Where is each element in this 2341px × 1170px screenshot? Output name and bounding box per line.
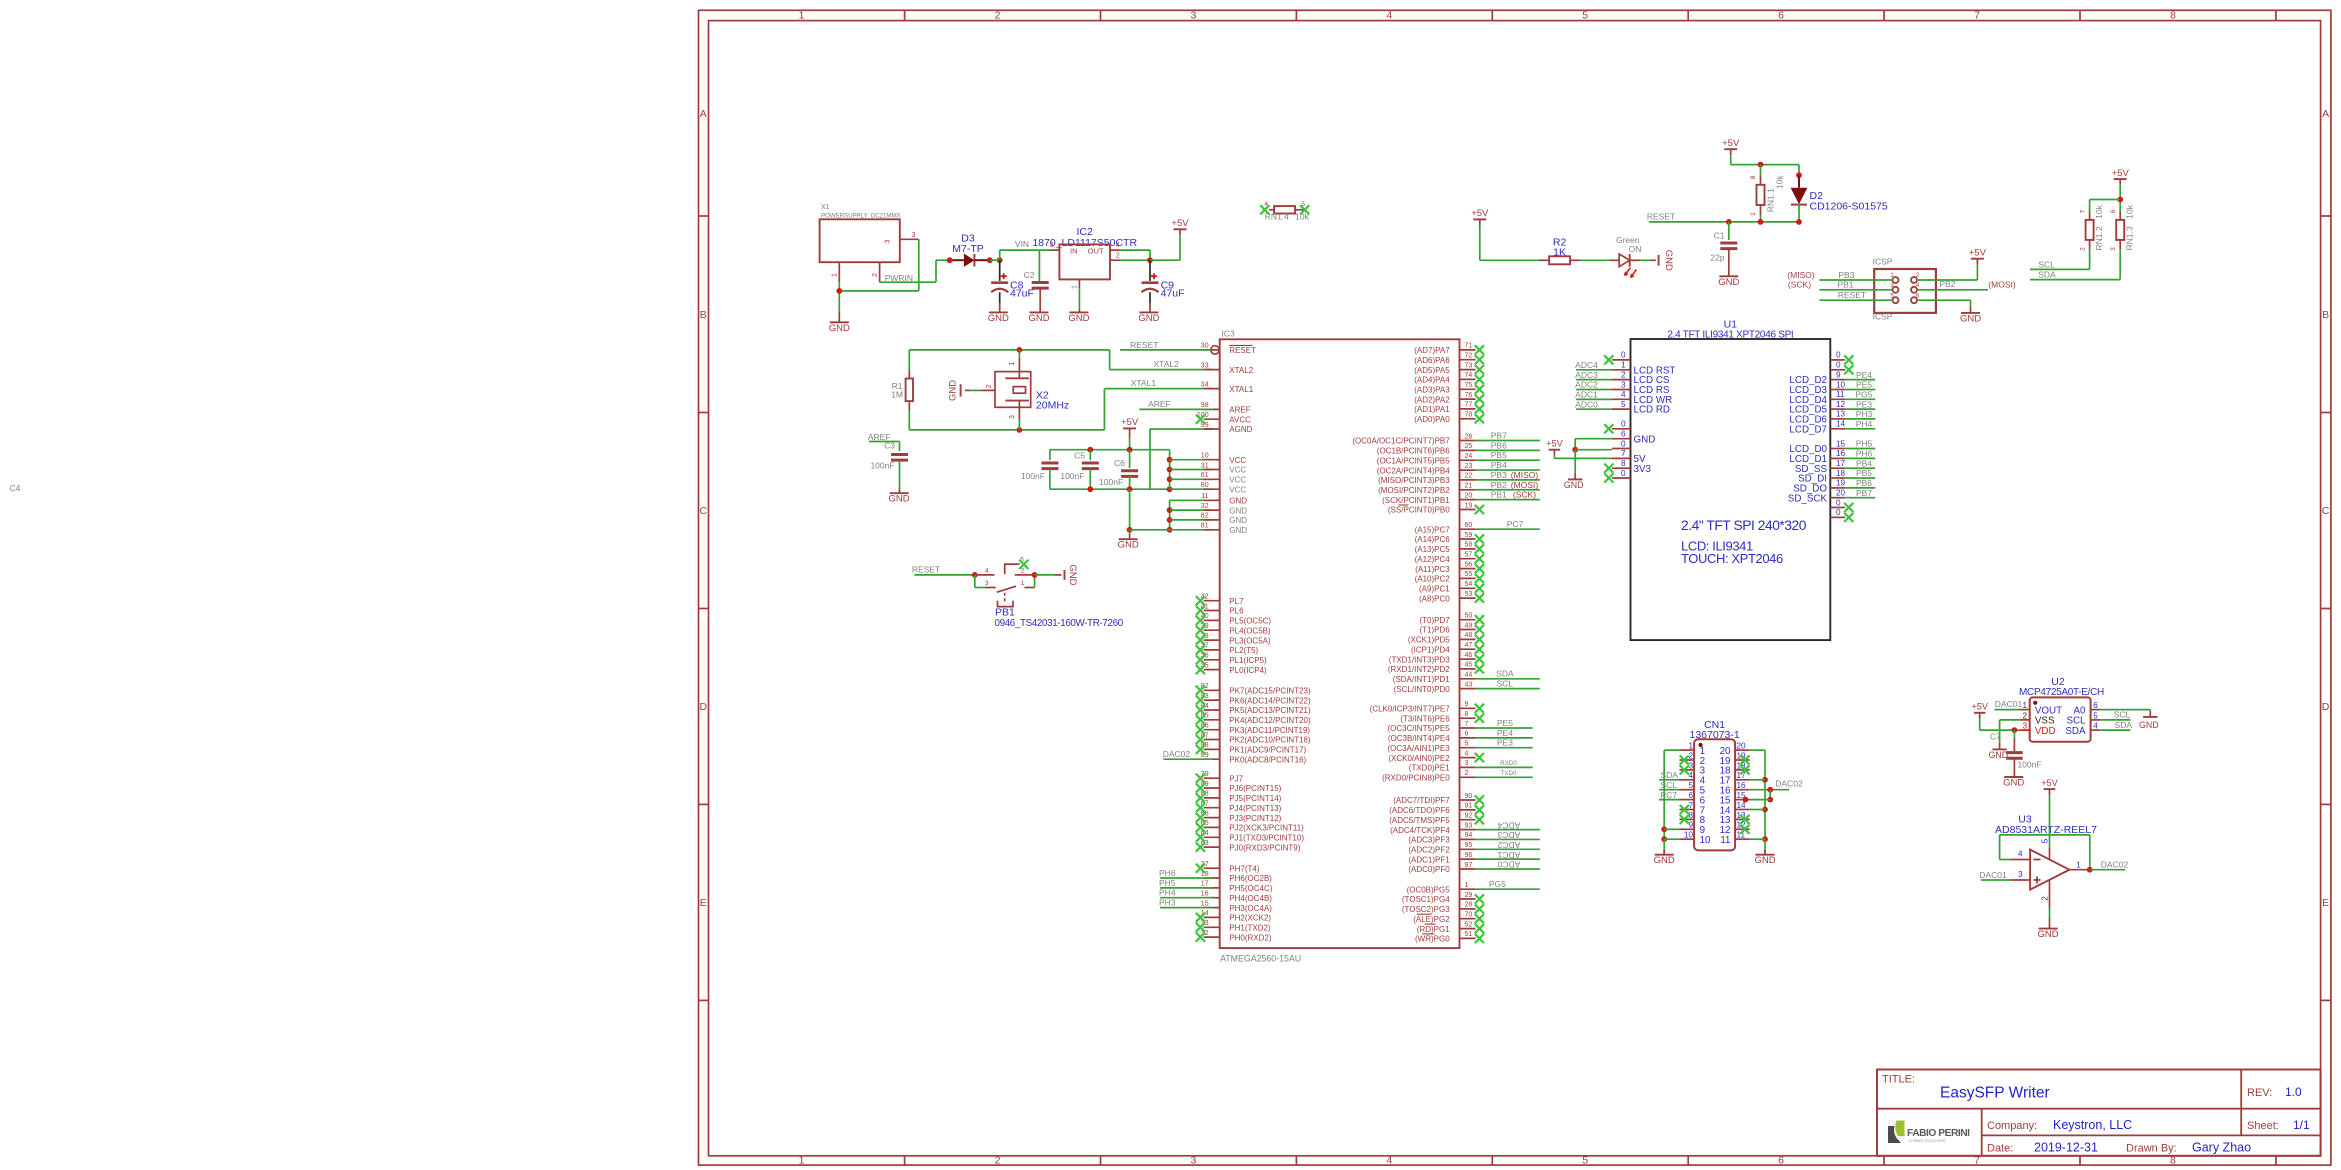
svg-text:RESET: RESET: [1130, 340, 1158, 350]
svg-text:D: D: [2322, 701, 2330, 713]
wire VCC rail to IC3: [1167, 450, 1213, 490]
LED Green ON: [1610, 235, 1641, 277]
svg-text:DAC01: DAC01: [1979, 870, 2007, 880]
wire ICSP pin2 to +5V: [1917, 259, 1977, 280]
wire CN1 left ground rail: [1661, 750, 1679, 854]
svg-text:C: C: [700, 505, 708, 517]
svg-text:3: 3: [985, 580, 989, 587]
wire AGND to ground rail: [1150, 429, 1213, 489]
svg-text:6: 6: [1465, 731, 1469, 738]
svg-text:6: 6: [1778, 10, 1784, 22]
svg-text:PE3: PE3: [1497, 738, 1513, 748]
wire ICSP pin4 to MOSI/PB2: [1917, 279, 2016, 290]
wire U3 feedback loop: [2000, 835, 2093, 873]
ground symbol at C1: [1718, 276, 1739, 288]
svg-text:ON: ON: [1629, 244, 1642, 254]
wire MISO/PB3 to ICSP pin1: [1787, 270, 1892, 280]
wire AREF stub at IC3: [1139, 399, 1212, 409]
svg-text:10k: 10k: [2094, 204, 2104, 218]
+5V symbol above C6: [1121, 417, 1139, 438]
svg-text:PK6(ADC14/PCINT22): PK6(ADC14/PCINT22): [1229, 696, 1311, 705]
svg-text:57: 57: [1465, 552, 1473, 559]
svg-text:2: 2: [1116, 253, 1120, 260]
svg-text:RN1.3: RN1.3: [2125, 226, 2135, 250]
diode D2 CD1206-S01575: [1791, 165, 1888, 222]
svg-text:MCP4725A0T-E/CH: MCP4725A0T-E/CH: [2019, 687, 2104, 698]
svg-text:B: B: [700, 309, 707, 321]
svg-text:PK2(ADC10/PCINT18): PK2(ADC10/PCINT18): [1229, 736, 1311, 745]
svg-text:Drawn By:: Drawn By:: [2126, 1143, 2177, 1155]
svg-text:LCD RD: LCD RD: [1634, 405, 1670, 416]
svg-text:0: 0: [1621, 351, 1626, 360]
svg-text:19: 19: [1465, 502, 1473, 509]
svg-text:28: 28: [1465, 902, 1473, 909]
svg-text:PL2(T5): PL2(T5): [1229, 646, 1258, 655]
svg-text:PL3(OC5A): PL3(OC5A): [1229, 636, 1271, 645]
svg-text:(AD3)PA3: (AD3)PA3: [1414, 386, 1450, 395]
svg-text:10k: 10k: [1295, 212, 1309, 222]
ground symbol at U2 VSS: [1989, 749, 2009, 760]
svg-text:ADC0: ADC0: [1575, 399, 1598, 409]
svg-text:GND: GND: [1068, 313, 1089, 324]
+5V symbol at ICSP: [1969, 248, 1987, 259]
connector X1 POWERSUPPLY_DC21MMX: [820, 204, 919, 282]
svg-text:0: 0: [1621, 420, 1626, 429]
svg-text:(AD5)PA5: (AD5)PA5: [1414, 366, 1450, 375]
svg-text:(TXD1/INT3)PD3: (TXD1/INT3)PD3: [1389, 655, 1450, 664]
wire U2 A0 to ground: [2100, 710, 2150, 717]
svg-text:0: 0: [1836, 351, 1841, 360]
svg-text:81: 81: [1201, 523, 1209, 530]
wire PC7 net: [1476, 519, 1540, 529]
svg-text:(WR)PG0: (WR)PG0: [1415, 935, 1450, 944]
svg-text:3: 3: [2110, 247, 2117, 251]
svg-text:(TOSC1)PG4: (TOSC1)PG4: [1402, 895, 1450, 904]
svg-text:1: 1: [799, 10, 805, 22]
svg-text:(RXD0/PCIN8)PE0: (RXD0/PCIN8)PE0: [1382, 774, 1450, 783]
svg-text:10k: 10k: [2125, 204, 2135, 218]
svg-text:76: 76: [1465, 392, 1473, 399]
svg-text:10: 10: [1684, 831, 1694, 840]
svg-text:PK7(ADC15/PCINT23): PK7(ADC15/PCINT23): [1229, 687, 1311, 696]
svg-text:(RD)PG1: (RD)PG1: [1417, 925, 1450, 934]
svg-text:24: 24: [1465, 453, 1473, 460]
svg-text:TITLE:: TITLE:: [1882, 1074, 1915, 1086]
svg-text:(T1)PD6: (T1)PD6: [1419, 626, 1450, 635]
svg-text:ICSP: ICSP: [1873, 257, 1893, 267]
ground symbol rotated at LED: [1659, 250, 1674, 271]
wire RN1.1 to RESET: [1760, 215, 1762, 222]
svg-text:6: 6: [1688, 791, 1693, 800]
svg-text:4: 4: [1386, 1155, 1392, 1167]
svg-text:(MISO): (MISO): [1787, 270, 1815, 280]
svg-text:EasySFP Writer: EasySFP Writer: [1940, 1085, 2050, 1102]
svg-text:75: 75: [1465, 382, 1473, 389]
svg-text:(ADC4/TCK)PF4: (ADC4/TCK)PF4: [1390, 826, 1450, 835]
ground symbol at IC2: [1068, 312, 1089, 324]
svg-text:XTAL1: XTAL1: [1131, 378, 1157, 388]
wire PB1 to ground: [1035, 574, 1062, 576]
svg-text:PH0(RXD2): PH0(RXD2): [1229, 933, 1272, 942]
svg-text:47: 47: [1465, 642, 1473, 649]
svg-text:B: B: [2322, 309, 2329, 321]
svg-text:(AD0)PA0: (AD0)PA0: [1414, 415, 1450, 424]
svg-text:5: 5: [1582, 1155, 1588, 1167]
svg-text:PH3: PH3: [1159, 898, 1176, 908]
wire SCL pull-up: [2030, 249, 2090, 270]
svg-text:(A11)PC3: (A11)PC3: [1415, 565, 1450, 574]
DAC U2 MCP4725A0T-E/CH: [2019, 676, 2104, 742]
regulator IC2 1870_LD1117S50CTR: [1032, 226, 1137, 289]
svg-text:2: 2: [995, 10, 1001, 22]
svg-text:30: 30: [1201, 343, 1209, 350]
svg-text:A: A: [700, 108, 707, 120]
svg-text:51: 51: [1465, 931, 1473, 938]
svg-text:ATMEGA2560-15AU: ATMEGA2560-15AU: [1220, 954, 1301, 964]
svg-text:OUT: OUT: [1088, 246, 1104, 255]
svg-text:13: 13: [1836, 410, 1846, 419]
svg-text:PE5: PE5: [1856, 380, 1872, 390]
svg-text:10k: 10k: [1775, 175, 1785, 189]
svg-text:11: 11: [1836, 390, 1845, 399]
svg-text:0: 0: [1621, 439, 1626, 448]
svg-text:91: 91: [1465, 803, 1473, 810]
svg-text:(OC3B/INT4)PE4: (OC3B/INT4)PE4: [1388, 734, 1450, 743]
svg-text:1: 1: [1009, 361, 1016, 365]
svg-text:100nF: 100nF: [1021, 471, 1045, 481]
svg-text:95: 95: [1465, 842, 1473, 849]
svg-text:(TOSC2)PG3: (TOSC2)PG3: [1402, 905, 1450, 914]
svg-text:PC7: PC7: [1507, 519, 1524, 529]
svg-text:1: 1: [799, 1155, 805, 1167]
svg-text:3: 3: [1009, 415, 1016, 419]
svg-text:PE4: PE4: [1856, 370, 1872, 380]
+5V symbol feeding R2: [1471, 208, 1489, 225]
wire LED to ground: [1640, 259, 1656, 261]
svg-text:GND: GND: [1718, 277, 1739, 288]
svg-text:Keystron, LLC: Keystron, LLC: [2053, 1118, 2132, 1132]
svg-text:PH1(TXD2): PH1(TXD2): [1229, 924, 1271, 933]
svg-text:97: 97: [1465, 862, 1473, 869]
ground symbol at U1: [1564, 479, 1584, 489]
svg-text:GND: GND: [1067, 564, 1078, 585]
svg-text:TXD0: TXD0: [1500, 770, 1517, 777]
svg-text:KÖRBER SOLUTIONS: KÖRBER SOLUTIONS: [1909, 1139, 1947, 1143]
svg-text:100nF: 100nF: [870, 461, 894, 471]
svg-text:+5V: +5V: [1121, 417, 1139, 428]
svg-text:(T3/INT6)PE6: (T3/INT6)PE6: [1400, 714, 1450, 723]
svg-text:+5V: +5V: [1971, 702, 1988, 712]
svg-text:(MOSI): (MOSI): [1511, 480, 1539, 490]
svg-text:48: 48: [1465, 632, 1473, 639]
IC3 right no-connect marks: [1475, 345, 1484, 943]
svg-text:AREF: AREF: [1148, 399, 1171, 409]
svg-text:(CLK0/ICP3/INT7)PE7: (CLK0/ICP3/INT7)PE7: [1370, 705, 1451, 714]
wire GND rail to IC3: [1130, 500, 1213, 532]
svg-text:3: 3: [884, 239, 891, 243]
svg-text:GND: GND: [2139, 720, 2159, 730]
ground symbol at C3: [889, 493, 910, 505]
svg-text:PL0(ICP4): PL0(ICP4): [1229, 666, 1267, 675]
svg-text:3: 3: [1190, 10, 1196, 22]
svg-text:PB1: PB1: [995, 607, 1015, 619]
svg-text:C: C: [2322, 505, 2330, 517]
svg-text:11: 11: [1201, 493, 1208, 500]
svg-text:4: 4: [2093, 722, 2098, 731]
svg-text:100nF: 100nF: [1099, 477, 1123, 487]
wire XTAL2 net: [909, 347, 1212, 370]
svg-text:2: 2: [1621, 370, 1626, 379]
svg-text:7: 7: [1621, 449, 1626, 458]
wire AREF net stub: [868, 432, 900, 451]
svg-text:3: 3: [1465, 760, 1469, 767]
svg-text:Sheet:: Sheet:: [2247, 1120, 2279, 1132]
svg-text:GND: GND: [1564, 480, 1584, 490]
svg-text:(MOSI): (MOSI): [1988, 280, 2016, 290]
wire U2 SCL net: [2100, 709, 2130, 720]
svg-text:DAC02: DAC02: [2101, 860, 2129, 870]
svg-text:PH5(OC4C): PH5(OC4C): [1229, 884, 1272, 893]
svg-text:PH4: PH4: [1159, 888, 1176, 898]
svg-text:RESET: RESET: [1838, 290, 1866, 300]
IC3 ATMEGA2560-15AU body: [1220, 329, 1460, 964]
svg-text:33: 33: [1201, 362, 1209, 369]
wire +5V distribution to VCC rail: [1050, 438, 1170, 468]
svg-text:PL1(ICP5): PL1(ICP5): [1229, 656, 1267, 665]
wires PB7-PB1 nets from IC3: [1476, 431, 1540, 500]
svg-text:23: 23: [1465, 463, 1473, 470]
crystal X2 20MHz: [965, 350, 1069, 430]
svg-text:5: 5: [2041, 838, 2050, 843]
svg-text:(SCK/PCINT1)PB1: (SCK/PCINT1)PB1: [1382, 496, 1450, 505]
ground symbol at CN1 right: [1754, 855, 1775, 867]
svg-text:58: 58: [1465, 542, 1473, 549]
svg-text:100nF: 100nF: [1060, 471, 1084, 481]
wires RXD0 TXD0 nets: [1476, 760, 1533, 777]
svg-text:PB2: PB2: [1491, 480, 1507, 490]
svg-text:0: 0: [1836, 508, 1841, 517]
svg-text:PH6: PH6: [1159, 868, 1176, 878]
svg-text:C1: C1: [1714, 230, 1725, 240]
svg-text:12: 12: [1836, 400, 1846, 409]
svg-text:PB6: PB6: [1491, 440, 1507, 450]
svg-text:ICSP: ICSP: [1873, 311, 1893, 321]
svg-text:1: 1: [2076, 860, 2081, 869]
wire XTAL1 net: [909, 378, 1212, 433]
svg-text:XTAL1: XTAL1: [1229, 385, 1253, 394]
svg-text:PE5: PE5: [1497, 718, 1513, 728]
svg-text:98: 98: [1201, 402, 1209, 409]
ground symbol at U2 A0: [2139, 717, 2159, 730]
svg-text:PJ7: PJ7: [1229, 774, 1243, 783]
svg-text:LCD_D7: LCD_D7: [1789, 424, 1827, 435]
svg-text:(ADC3)PF3: (ADC3)PF3: [1408, 836, 1450, 845]
wire U3 pin2 to ground: [2049, 908, 2051, 928]
svg-text:9: 9: [1836, 370, 1841, 379]
svg-text:PB4: PB4: [1856, 458, 1872, 468]
U1 left no-connect marks: [1604, 355, 1613, 482]
ground symbol at C2: [1028, 312, 1049, 324]
svg-text:(OC0A/OC1C/PCINT7)PB7: (OC0A/OC1C/PCINT7)PB7: [1352, 437, 1450, 446]
ground symbol rotated at X2: [948, 380, 961, 401]
svg-text:5: 5: [2093, 711, 2098, 720]
wires PH6 PH5 PH4 PH3 stubs: [1159, 868, 1213, 908]
svg-text:(A10)PC2: (A10)PC2: [1415, 575, 1451, 584]
svg-text:3: 3: [1621, 380, 1626, 389]
svg-text:(SS/PCINT0)PB0: (SS/PCINT0)PB0: [1388, 506, 1450, 515]
svg-text:ADC1: ADC1: [1497, 850, 1520, 860]
svg-text:+5V: +5V: [2112, 168, 2130, 179]
svg-text:100nF: 100nF: [2017, 759, 2041, 769]
svg-text:PH3(OC4A): PH3(OC4A): [1229, 904, 1272, 913]
svg-text:PB3: PB3: [1491, 470, 1507, 480]
resistor RN1.3 10k: [2110, 204, 2134, 250]
wire U2 SDA net: [2100, 720, 2132, 730]
svg-text:ADC3: ADC3: [1497, 830, 1520, 840]
svg-text:PJ2(XCK3/PCINT11): PJ2(XCK3/PCINT11): [1229, 824, 1304, 833]
svg-text:IC3: IC3: [1222, 329, 1236, 339]
wire RESET net at pullup: [1647, 212, 1802, 240]
svg-text:4: 4: [985, 567, 989, 574]
svg-text:61: 61: [1201, 472, 1209, 479]
svg-text:GND: GND: [2003, 778, 2024, 789]
svg-text:RXD0: RXD0: [1500, 760, 1517, 767]
ground symbol at C8: [988, 312, 1009, 324]
svg-text:2: 2: [2022, 711, 2027, 720]
wires ADC4-ADC0 nets (rotated labels): [1476, 820, 1540, 869]
svg-text:0946_TS42031-160W-TR-7260: 0946_TS42031-160W-TR-7260: [995, 618, 1124, 629]
capacitor C5 100nF: [1060, 450, 1098, 489]
wire DAC02 to PK0: [1163, 749, 1213, 759]
svg-text:GND: GND: [1229, 516, 1247, 525]
svg-text:RESET: RESET: [1229, 346, 1256, 355]
svg-text:C6: C6: [1114, 458, 1125, 468]
svg-text:10: 10: [1700, 835, 1711, 846]
U1 left pins: [1612, 351, 1675, 478]
connector CN1 1367073-1: [1680, 719, 1750, 850]
svg-text:RN1.1: RN1.1: [1766, 188, 1776, 212]
svg-text:74: 74: [1465, 372, 1473, 379]
resistor R1 1M: [891, 350, 913, 430]
svg-text:(A13)PC5: (A13)PC5: [1415, 545, 1451, 554]
svg-text:PB3: PB3: [1838, 270, 1854, 280]
ground symbol rotated at PB1: [1065, 564, 1079, 585]
+5V symbol above RN1.2/RN1.3: [2112, 168, 2130, 185]
ground symbol at C7: [2003, 777, 2024, 789]
svg-text:60: 60: [1465, 522, 1473, 529]
svg-text:PE4: PE4: [1497, 728, 1513, 738]
wire +5V to R2: [1480, 226, 1539, 261]
svg-text:2: 2: [1021, 567, 1025, 574]
svg-text:GND: GND: [1118, 540, 1139, 551]
wire DAC01 to U3 + input: [1979, 870, 2010, 880]
svg-text:(T0)PD7: (T0)PD7: [1419, 616, 1450, 625]
svg-text:8: 8: [2170, 10, 2176, 22]
svg-text:1: 1: [1750, 212, 1757, 216]
svg-text:+5V: +5V: [1722, 138, 1740, 149]
IC3 left pins with numbers and names: [1197, 343, 1311, 943]
svg-text:(ADC7/TDI)PF7: (ADC7/TDI)PF7: [1393, 796, 1450, 805]
svg-text:PJ6(PCINT15): PJ6(PCINT15): [1229, 784, 1281, 793]
svg-text:1: 1: [832, 273, 839, 277]
svg-text:2019-12-31: 2019-12-31: [2034, 1141, 2098, 1155]
resistor RN1.4 10k: [1260, 201, 1309, 222]
svg-text:PB5: PB5: [1856, 468, 1872, 478]
svg-text:E: E: [700, 897, 707, 909]
svg-text:22p: 22p: [1710, 253, 1724, 263]
wire X1 ground net: [836, 282, 918, 322]
svg-text:ADC4: ADC4: [1497, 820, 1520, 830]
svg-text:5: 5: [1301, 201, 1305, 208]
svg-text:4: 4: [2018, 850, 2023, 859]
svg-text:90: 90: [1465, 793, 1473, 800]
svg-text:DAC02: DAC02: [1163, 749, 1191, 759]
svg-text:(OC3A/AIN1)PE3: (OC3A/AIN1)PE3: [1387, 744, 1450, 753]
svg-text:+5V: +5V: [1471, 208, 1489, 219]
svg-text:GND: GND: [1229, 506, 1247, 515]
svg-text:PC7: PC7: [1661, 790, 1678, 800]
svg-text:AVCC: AVCC: [1229, 415, 1251, 424]
svg-text:ADC0: ADC0: [1497, 860, 1520, 870]
svg-text:72: 72: [1465, 353, 1473, 360]
svg-text:PH3: PH3: [1856, 409, 1873, 419]
svg-text:6: 6: [1621, 430, 1626, 439]
capacitor C8 47uF: [991, 260, 1034, 312]
svg-text:PH5: PH5: [1856, 439, 1873, 449]
svg-text:PL6: PL6: [1229, 607, 1244, 616]
svg-text:17: 17: [1836, 459, 1846, 468]
svg-text:SCL: SCL: [1661, 780, 1678, 790]
svg-text:GND: GND: [1754, 855, 1775, 866]
svg-text:GND: GND: [1229, 526, 1247, 535]
svg-text:62: 62: [1201, 513, 1209, 520]
svg-text:92: 92: [1465, 813, 1473, 820]
svg-text:3: 3: [1190, 1155, 1196, 1167]
svg-text:20: 20: [1465, 492, 1473, 499]
svg-text:(AD4)PA4: (AD4)PA4: [1414, 376, 1450, 385]
svg-text:80: 80: [1201, 482, 1209, 489]
svg-text:19: 19: [1836, 479, 1846, 488]
svg-text:(XCK1)PD5: (XCK1)PD5: [1408, 636, 1450, 645]
svg-text:PK3(ADC11/PCINT19): PK3(ADC11/PCINT19): [1229, 726, 1310, 735]
+5V symbol at U2: [1971, 702, 1988, 713]
svg-text:1/1: 1/1: [2293, 1118, 2310, 1132]
svg-text:53: 53: [1465, 591, 1473, 598]
svg-text:0: 0: [1836, 498, 1841, 507]
svg-text:17: 17: [1201, 881, 1209, 888]
svg-text:78: 78: [1465, 412, 1473, 419]
svg-text:XTAL2: XTAL2: [1154, 359, 1180, 369]
wire U1 GND pins to ground: [1572, 439, 1612, 479]
wire +5V output net of IC2: [1120, 229, 1180, 263]
svg-text:SD_SCK: SD_SCK: [1788, 493, 1828, 504]
svg-text:PJ3(PCINT12): PJ3(PCINT12): [1229, 814, 1281, 823]
svg-text:GND: GND: [1960, 313, 1981, 324]
svg-text:(TXD0)PE1: (TXD0)PE1: [1409, 764, 1450, 773]
svg-text:GND: GND: [988, 313, 1009, 324]
svg-text:(A8)PC0: (A8)PC0: [1419, 594, 1450, 603]
+5V symbol at U1: [1546, 439, 1563, 450]
svg-text:+5V: +5V: [2041, 778, 2058, 788]
svg-text:PL4(OC5B): PL4(OC5B): [1229, 626, 1271, 635]
resistor RN1.1 10k: [1750, 175, 1784, 216]
wires from U1 right pins to nets: [1845, 370, 1875, 498]
svg-text:(ADC2)PF2: (ADC2)PF2: [1408, 846, 1450, 855]
svg-text:16: 16: [1836, 449, 1846, 458]
svg-text:(OC1B/PCINT6)PB6: (OC1B/PCINT6)PB6: [1377, 447, 1450, 456]
op-amp U3 AD8531ARTZ-REEL7: [1995, 814, 2097, 908]
svg-text:VIN: VIN: [1015, 239, 1029, 249]
